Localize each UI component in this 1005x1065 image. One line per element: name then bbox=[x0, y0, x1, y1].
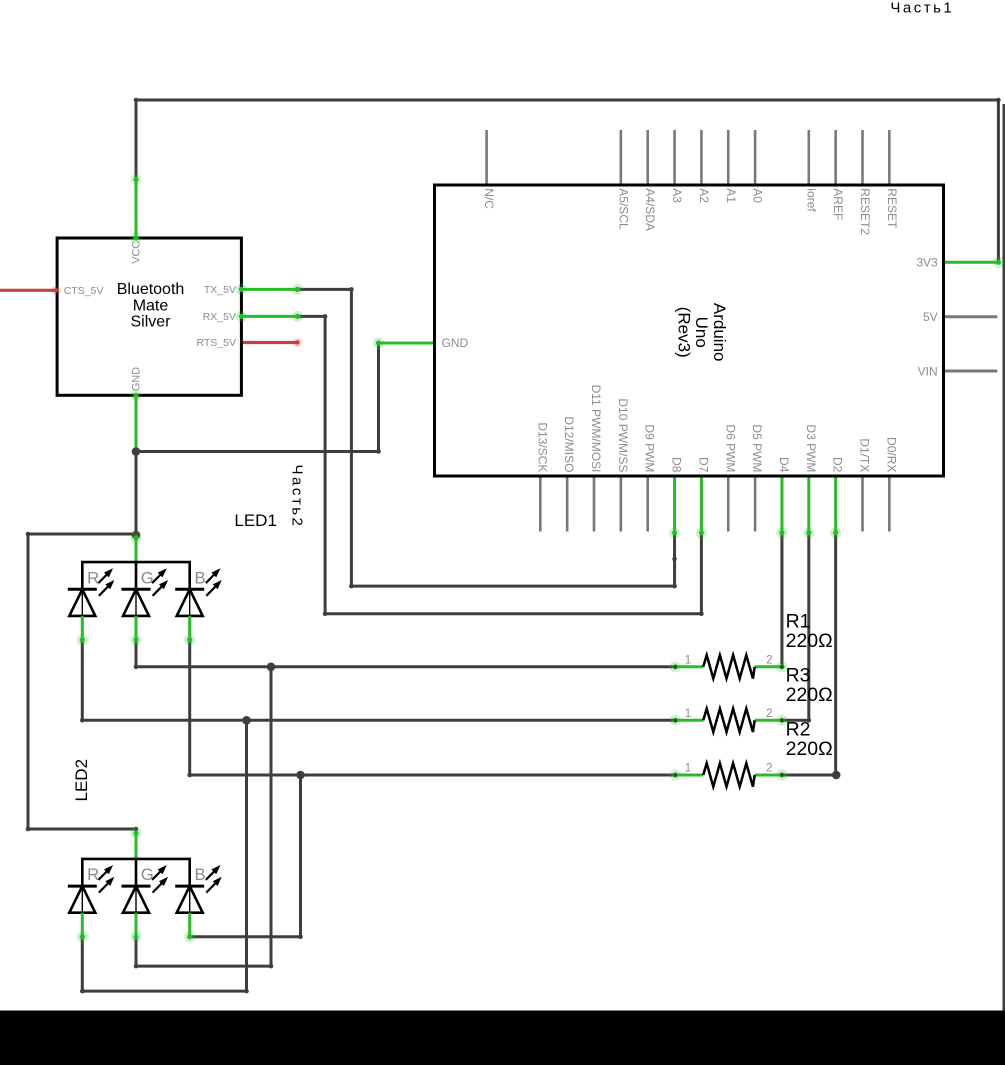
svg-text:A4/SDA: A4/SDA bbox=[643, 188, 657, 231]
svg-text:2: 2 bbox=[766, 708, 772, 720]
svg-text:Bluetooth: Bluetooth bbox=[117, 281, 185, 298]
svg-text:Arduino: Arduino bbox=[710, 303, 729, 362]
svg-text:N/C: N/C bbox=[482, 188, 496, 209]
svg-text:(Rev3): (Rev3) bbox=[675, 307, 694, 358]
svg-text:R: R bbox=[87, 865, 99, 884]
svg-text:D8: D8 bbox=[670, 457, 684, 473]
svg-text:LED1: LED1 bbox=[234, 511, 277, 530]
svg-text:B: B bbox=[195, 568, 206, 587]
svg-text:Часть1: Часть1 bbox=[890, 0, 954, 16]
svg-text:VCC: VCC bbox=[130, 241, 142, 264]
svg-text:3V3: 3V3 bbox=[916, 256, 938, 270]
svg-text:A5/SCL: A5/SCL bbox=[616, 188, 630, 230]
svg-text:G: G bbox=[141, 865, 154, 884]
svg-text:A1: A1 bbox=[724, 188, 738, 203]
svg-text:G: G bbox=[141, 568, 154, 587]
svg-text:CTS_5V: CTS_5V bbox=[64, 285, 104, 297]
svg-text:1: 1 bbox=[685, 708, 691, 720]
svg-text:TX_5V: TX_5V bbox=[204, 284, 236, 296]
svg-text:AREF: AREF bbox=[831, 188, 845, 220]
svg-text:R: R bbox=[87, 568, 99, 587]
svg-text:RESET2: RESET2 bbox=[858, 188, 872, 235]
svg-text:D11 PWM/MOSI: D11 PWM/MOSI bbox=[589, 385, 603, 473]
svg-text:VIN: VIN bbox=[918, 364, 938, 378]
svg-text:D10 PWM/SS: D10 PWM/SS bbox=[616, 398, 630, 472]
svg-text:D7: D7 bbox=[696, 457, 710, 473]
svg-text:RX_5V: RX_5V bbox=[203, 311, 236, 323]
svg-text:A3: A3 bbox=[670, 188, 684, 203]
svg-text:5V: 5V bbox=[923, 310, 938, 324]
svg-text:D6 PWM: D6 PWM bbox=[723, 424, 737, 472]
svg-text:Часть2: Часть2 bbox=[289, 465, 306, 529]
svg-text:D3 PWM: D3 PWM bbox=[804, 424, 818, 472]
svg-text:D1/TX: D1/TX bbox=[858, 438, 872, 472]
svg-text:GND: GND bbox=[130, 367, 142, 391]
svg-text:2: 2 bbox=[766, 655, 772, 667]
svg-text:D12/MISO: D12/MISO bbox=[562, 416, 576, 472]
svg-text:Uno: Uno bbox=[692, 317, 711, 348]
svg-text:B: B bbox=[195, 865, 206, 884]
svg-text:Silver: Silver bbox=[130, 314, 171, 331]
svg-text:D13/SCK: D13/SCK bbox=[535, 422, 549, 472]
svg-text:A0: A0 bbox=[751, 188, 765, 203]
svg-text:Mate: Mate bbox=[133, 297, 169, 314]
svg-text:RTS_5V: RTS_5V bbox=[197, 337, 237, 349]
svg-text:1: 1 bbox=[685, 763, 691, 775]
svg-text:D4: D4 bbox=[777, 457, 791, 473]
svg-text:1: 1 bbox=[685, 655, 691, 667]
svg-text:D5 PWM: D5 PWM bbox=[750, 424, 764, 472]
svg-text:RESET: RESET bbox=[885, 188, 899, 229]
svg-text:GND: GND bbox=[442, 336, 469, 350]
svg-text:220Ω: 220Ω bbox=[786, 630, 833, 652]
svg-text:D9 PWM: D9 PWM bbox=[643, 424, 657, 472]
svg-text:LED2: LED2 bbox=[72, 759, 91, 802]
svg-text:D0/RX: D0/RX bbox=[884, 437, 898, 472]
svg-text:220Ω: 220Ω bbox=[786, 684, 833, 706]
svg-text:D2: D2 bbox=[831, 457, 845, 473]
svg-text:220Ω: 220Ω bbox=[786, 738, 833, 760]
svg-text:ioref: ioref bbox=[804, 188, 818, 212]
svg-text:2: 2 bbox=[766, 763, 772, 775]
svg-text:A2: A2 bbox=[697, 188, 711, 203]
